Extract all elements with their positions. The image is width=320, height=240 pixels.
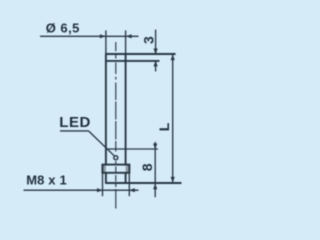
svg-text:LED: LED — [59, 114, 91, 131]
svg-text:Ø 6,5: Ø 6,5 — [46, 20, 80, 35]
svg-text:M8 x 1: M8 x 1 — [26, 172, 67, 187]
svg-text:L: L — [156, 122, 172, 131]
svg-text:3: 3 — [141, 36, 157, 44]
svg-text:8: 8 — [139, 163, 155, 171]
